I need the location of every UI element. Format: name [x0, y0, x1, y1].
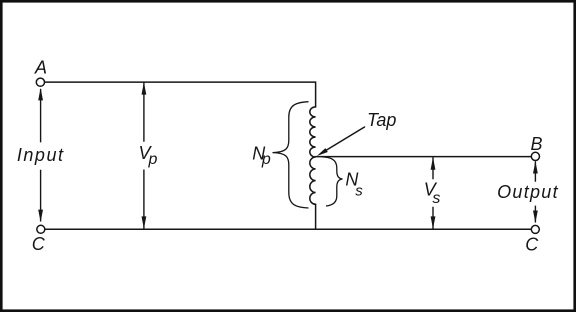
svg-text:Input: Input: [17, 145, 65, 165]
svg-text:A: A: [34, 58, 47, 78]
svg-text:C: C: [525, 234, 539, 254]
svg-text:B: B: [531, 134, 543, 154]
svg-text:Output: Output: [497, 182, 559, 202]
svg-text:C: C: [32, 234, 46, 254]
svg-text:Tap: Tap: [367, 110, 396, 130]
